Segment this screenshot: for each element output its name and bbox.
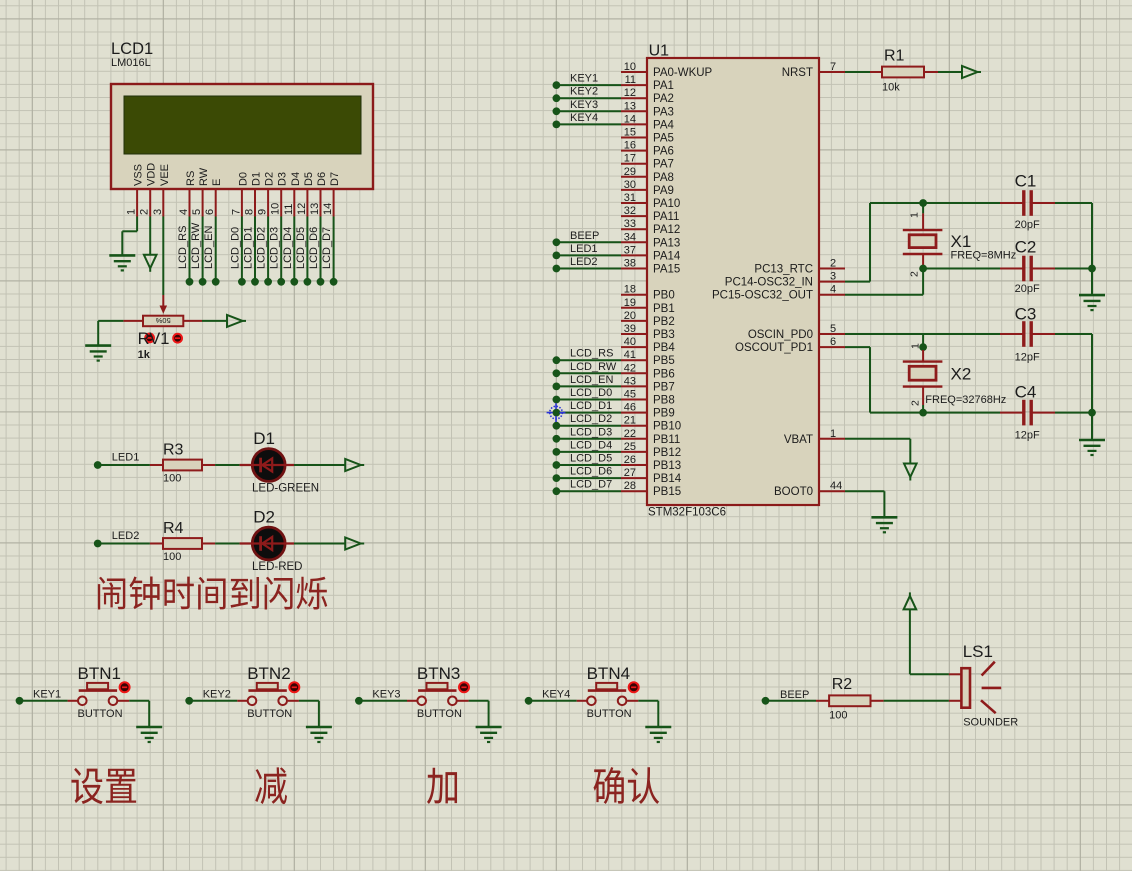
svg-text:1: 1 [126,209,138,215]
wire D1 out [294,464,345,466]
BTN4 marker [629,682,639,692]
svg-text:2: 2 [830,258,836,270]
svg-text:LCD_EN: LCD_EN [570,374,613,386]
svg-text:PA7: PA7 [653,159,674,171]
svg-text:46: 46 [624,402,636,414]
svg-text:PA0-WKUP: PA0-WKUP [653,67,713,79]
wire BTN4 to ground [638,700,658,702]
svg-text:27: 27 [624,467,636,479]
svg-text:KEY1: KEY1 [570,73,598,85]
RV1 right lead [183,320,202,322]
svg-text:28: 28 [624,480,636,492]
svg-text:26: 26 [624,454,636,466]
wire VEE to RV1 [162,217,164,296]
svg-text:KEY3: KEY3 [372,688,400,700]
svg-text:LCD_D2: LCD_D2 [570,413,612,425]
svg-text:LCD_D3: LCD_D3 [269,227,281,269]
svg-text:7: 7 [230,209,242,215]
svg-text:PC15-OSC32_OUT: PC15-OSC32_OUT [712,290,813,302]
svg-text:R3: R3 [163,442,184,459]
svg-text:9: 9 [257,209,269,215]
svg-text:PC13_RTC: PC13_RTC [754,264,813,276]
svg-text:D1: D1 [253,429,275,448]
svg-text:PB2: PB2 [653,316,675,328]
svg-text:STM32F103C6: STM32F103C6 [648,507,726,519]
RV1 marker right [173,334,182,343]
svg-text:2: 2 [139,209,151,215]
U1 left pin stubs [621,71,647,73]
svg-text:PB13: PB13 [653,460,681,472]
svg-text:43: 43 [624,375,636,387]
svg-text:33: 33 [624,218,636,230]
MCU U1 body [647,58,819,505]
svg-text:KEY4: KEY4 [570,112,598,124]
svg-text:LCD_D0: LCD_D0 [229,227,241,269]
capacitor C2 [1000,268,1024,270]
svg-text:VEE: VEE [159,164,171,186]
wire net LCD_D3 [556,438,621,440]
wire OSCIN C3 [845,333,1000,335]
svg-text:4: 4 [830,284,836,296]
wire BTN1 to ground [129,700,149,702]
svg-text:100: 100 [829,710,847,722]
LCD wire terminals [186,278,194,286]
wire net LCD_D7 [556,490,621,492]
svg-text:BEEP: BEEP [570,230,599,242]
ground (C1 C2) [1079,294,1105,297]
svg-text:LED-RED: LED-RED [252,561,302,573]
sounder LS1 body [961,668,970,708]
svg-text:LS1: LS1 [963,642,993,661]
capacitor C4 [1000,412,1024,414]
wire PC15 [845,294,923,296]
svg-text:7: 7 [830,61,836,73]
power arrow (D2) [345,538,361,550]
button BTN4 [587,697,596,706]
svg-text:LCD_D1: LCD_D1 [570,400,612,412]
svg-text:BUTTON: BUTTON [417,708,462,720]
button BTN3 [417,697,426,706]
svg-text:LCD_D6: LCD_D6 [308,227,320,269]
wire net LCD_D2 [556,425,621,427]
svg-text:D2: D2 [253,508,275,527]
wire net LED2 [556,268,621,270]
svg-text:LCD_D1: LCD_D1 [243,227,255,269]
svg-text:14: 14 [322,203,334,215]
svg-text:LCD_D6: LCD_D6 [570,466,612,478]
wire net LCD_RW [556,372,621,374]
svg-text:BUTTON: BUTTON [247,708,292,720]
svg-text:VDD: VDD [146,163,158,186]
svg-text:10: 10 [270,203,282,215]
selection marker (LCD_D1 pin) [550,406,563,419]
svg-text:BTN4: BTN4 [587,664,630,683]
svg-text:39: 39 [624,323,636,335]
potentiometer RV1 body [143,316,183,327]
svg-text:34: 34 [624,231,636,243]
svg-text:PB14: PB14 [653,473,682,485]
svg-text:D1: D1 [251,172,263,186]
RV1 left lead [123,320,143,322]
svg-text:13: 13 [624,100,636,112]
ground (BOOT0) [871,516,897,519]
ground (BTN3) [476,726,502,729]
svg-text:LCD_D7: LCD_D7 [321,227,333,269]
svg-text:BEEP: BEEP [780,689,809,701]
LS1 lead top [949,673,962,675]
X1 pin2 lead [922,254,924,269]
svg-text:LCD_D7: LCD_D7 [570,479,612,491]
svg-text:PA15: PA15 [653,264,680,276]
wire net LCD_D4 [556,451,621,453]
resistor R3 [150,464,163,466]
svg-text:LCD_D3: LCD_D3 [570,426,612,438]
svg-text:6: 6 [204,209,216,215]
svg-text:12: 12 [296,203,308,215]
svg-text:KEY1: KEY1 [33,688,61,700]
svg-text:12: 12 [624,87,636,99]
svg-text:PB1: PB1 [653,303,675,315]
svg-text:RW: RW [198,167,210,186]
svg-text:KEY2: KEY2 [570,86,598,98]
right rail top [1091,203,1093,295]
ground (RV1) [85,344,111,347]
svg-text:LM016L: LM016L [111,57,151,69]
svg-text:12pF: 12pF [1015,352,1040,364]
svg-text:PA11: PA11 [653,211,679,223]
svg-text:PB7: PB7 [653,381,675,393]
svg-text:1: 1 [910,343,922,349]
LCD pin stubs [136,189,138,217]
svg-text:PA6: PA6 [653,146,674,158]
wire PC14 riser [869,203,871,282]
svg-text:4: 4 [178,209,190,215]
power arrow (VDD) [144,255,157,268]
X2 pin2 lead [922,387,924,405]
svg-text:42: 42 [624,362,636,374]
svg-text:100: 100 [163,551,181,563]
svg-text:X2: X2 [951,365,972,384]
svg-text:D5: D5 [303,172,315,186]
svg-text:RS: RS [185,171,197,186]
node X1 pin2 [919,265,927,273]
U1 right pin stubs [819,71,845,73]
svg-text:PB15: PB15 [653,486,681,498]
svg-text:8: 8 [244,209,256,215]
wire R2 to LS1 [884,700,949,702]
svg-text:PA14: PA14 [653,250,681,262]
svg-text:PA3: PA3 [653,106,674,118]
LCD screen [124,96,361,154]
caption plus [427,768,457,804]
svg-text:2: 2 [909,271,921,277]
svg-text:PC14-OSC32_IN: PC14-OSC32_IN [725,277,813,289]
svg-text:FREQ=32768Hz: FREQ=32768Hz [925,394,1006,406]
wire R4 in [98,543,150,545]
svg-text:PB11: PB11 [653,434,680,446]
svg-text:PB6: PB6 [653,368,675,380]
svg-text:LCD_D4: LCD_D4 [570,439,612,451]
svg-text:BTN2: BTN2 [247,664,290,683]
svg-text:19: 19 [624,297,636,309]
svg-text:PA10: PA10 [653,198,680,210]
svg-text:R1: R1 [884,48,905,65]
wire KEY3 [359,700,407,702]
capacitor C3 [1000,333,1024,335]
svg-text:PA13: PA13 [653,237,680,249]
wire KEY1 [20,700,68,702]
svg-text:C3: C3 [1015,305,1037,324]
ground (BTN4) [645,726,671,729]
power arrow (D1) [345,459,361,471]
wire net KEY2 [556,97,621,99]
svg-text:20: 20 [624,310,636,322]
ground (BTN1) [136,726,162,729]
crystal X1 [903,229,943,231]
svg-text:KEY3: KEY3 [570,99,598,111]
svg-text:PA12: PA12 [653,224,680,236]
svg-text:D3: D3 [277,172,289,186]
wire net BEEP [556,241,621,243]
svg-text:17: 17 [624,153,636,165]
wire net LCD_D0 [556,399,621,401]
svg-text:LCD_RS: LCD_RS [177,226,189,269]
button BTN1 [78,697,87,706]
resistor R1 [870,71,882,73]
svg-text:40: 40 [624,336,636,348]
annotation alarm-flash text [98,577,125,610]
wire net LCD_D6 [556,477,621,479]
wire BOOT0 [845,490,884,492]
svg-text:LED1: LED1 [112,452,140,464]
svg-text:LCD1: LCD1 [111,40,153,58]
power arrow (NRST) [962,66,978,78]
svg-text:100: 100 [163,473,181,485]
wire net KEY3 [556,110,621,112]
resistor R2 [816,700,829,702]
svg-text:PA5: PA5 [653,133,674,145]
svg-text:5: 5 [830,323,836,335]
wire R3 in [98,464,150,466]
svg-text:1k: 1k [138,349,151,361]
svg-text:3: 3 [152,209,164,215]
caption minus [255,767,287,804]
BTN1 marker [120,682,130,692]
wire net LCD_D5 [556,464,621,466]
button BTN2 [248,697,257,706]
svg-text:38: 38 [624,258,636,270]
svg-text:PB5: PB5 [653,355,675,367]
svg-text:PB0: PB0 [653,290,675,302]
svg-text:PB4: PB4 [653,342,675,354]
svg-text:11: 11 [283,204,295,215]
svg-text:LCD_D4: LCD_D4 [282,227,294,269]
svg-text:6: 6 [830,336,836,348]
wire D2 out [294,543,345,545]
svg-text:50%: 50% [155,316,170,325]
svg-text:BUTTON: BUTTON [78,708,123,720]
node rail C2 [1088,265,1096,273]
svg-text:LCD_EN: LCD_EN [203,226,215,269]
wire VBAT [845,438,910,440]
wire net KEY1 [556,84,621,86]
svg-text:22: 22 [624,428,636,440]
svg-text:OSCIN_PD0: OSCIN_PD0 [748,329,813,341]
X1 pin1 lead [922,203,924,213]
ground (C3 C4) [1079,439,1105,442]
crystal X2 [903,360,943,362]
power arrow (LS1) [904,596,917,610]
wire R1 to power [938,71,962,73]
LED D2 [252,527,285,560]
svg-text:2: 2 [910,400,922,406]
svg-text:RV1: RV1 [138,330,170,348]
wire RV1 left to ground [98,320,123,322]
svg-text:LED1: LED1 [570,243,598,255]
svg-text:PB3: PB3 [653,329,675,341]
svg-text:PB10: PB10 [653,421,681,433]
svg-text:LED-GREEN: LED-GREEN [252,482,319,494]
right rail bottom [1091,334,1093,440]
wire NRST to R1 [845,71,870,73]
wire C1 top [870,202,1000,204]
LED D1 [252,449,285,482]
svg-text:45: 45 [624,389,636,401]
LCD LM016L body [111,84,373,189]
LCD data wires [189,217,191,282]
svg-text:10: 10 [624,61,636,73]
svg-text:15: 15 [624,127,636,139]
svg-text:SOUNDER: SOUNDER [963,717,1018,729]
RV1 wiper lead [162,295,164,307]
svg-text:VBAT: VBAT [784,434,813,446]
wire RV1 right [202,320,227,322]
svg-text:PB9: PB9 [653,408,675,420]
svg-text:BTN3: BTN3 [417,664,460,683]
wire R3 to D1 [215,464,240,466]
svg-text:C4: C4 [1015,383,1037,402]
svg-text:KEY2: KEY2 [203,688,231,700]
svg-text:D7: D7 [329,172,341,186]
svg-text:30: 30 [624,179,636,191]
wire power to LS1 [909,609,911,674]
svg-text:32: 32 [624,205,636,217]
svg-text:10k: 10k [882,82,900,94]
svg-text:BUTTON: BUTTON [587,708,632,720]
svg-text:E: E [211,179,223,186]
svg-text:BTN1: BTN1 [78,664,121,683]
svg-text:3: 3 [830,271,836,283]
caption set [71,768,102,804]
svg-text:LED2: LED2 [112,530,140,542]
wire VDD [149,217,151,255]
svg-text:FREQ=8MHz: FREQ=8MHz [951,250,1017,262]
svg-text:12pF: 12pF [1015,430,1040,442]
svg-text:18: 18 [624,284,636,296]
caption confirm [593,767,623,804]
svg-text:LCD_D5: LCD_D5 [570,453,612,465]
ground (BTN2) [306,726,332,729]
svg-text:41: 41 [624,349,636,361]
node X2 pin2 [919,409,927,417]
power arrow (RV1 out) [227,315,243,327]
power arrow (VBAT) [904,464,917,478]
wire BTN2 to ground [299,700,319,702]
svg-text:21: 21 [624,415,636,427]
wire R4 to D2 [215,543,240,545]
svg-text:LCD_RW: LCD_RW [570,361,617,373]
svg-text:5: 5 [191,209,203,215]
svg-text:44: 44 [830,480,842,492]
wire OSCOUT [845,346,870,348]
LS1 sound waves [982,662,995,676]
node X1 pin1 [919,199,927,207]
svg-text:LCD_RW: LCD_RW [190,222,202,269]
svg-text:D6: D6 [316,172,328,186]
svg-text:13: 13 [309,203,321,215]
svg-text:PB12: PB12 [653,447,681,459]
svg-text:D0: D0 [237,172,249,186]
svg-text:20pF: 20pF [1015,219,1040,231]
svg-text:31: 31 [624,192,636,204]
svg-text:NRST: NRST [782,67,813,79]
RV1 marker left [145,334,154,343]
wire VSS to ground [136,217,138,232]
svg-text:PA9: PA9 [653,185,674,197]
svg-text:PA1: PA1 [653,80,674,92]
svg-text:PB8: PB8 [653,395,675,407]
BTN2 marker [289,682,299,692]
wire net LCD_EN [556,385,621,387]
svg-text:14: 14 [624,113,636,125]
svg-text:PA4: PA4 [653,119,674,131]
svg-text:VSS: VSS [133,164,145,186]
svg-text:PA2: PA2 [653,93,674,105]
svg-text:1: 1 [830,428,836,440]
svg-text:37: 37 [624,244,636,256]
svg-text:25: 25 [624,441,636,453]
svg-text:1: 1 [909,212,921,218]
svg-text:R4: R4 [163,520,184,537]
svg-text:C2: C2 [1015,238,1037,257]
node rail C4 [1088,409,1096,417]
svg-text:R2: R2 [832,676,853,693]
svg-text:LCD_RS: LCD_RS [570,348,613,360]
ground (LCD VSS) [109,254,135,257]
BTN3 marker [459,682,469,692]
wire net KEY4 [556,123,621,125]
svg-text:OSCOUT_PD1: OSCOUT_PD1 [735,342,813,354]
svg-text:KEY4: KEY4 [542,688,570,700]
wire KEY2 [189,700,237,702]
svg-text:20pF: 20pF [1015,283,1040,295]
svg-text:11: 11 [625,74,636,86]
svg-text:BOOT0: BOOT0 [774,486,813,498]
svg-text:D4: D4 [290,172,302,186]
X2 pin1 lead [922,334,924,350]
svg-text:D2: D2 [264,172,276,186]
wire net LCD_D1 [556,412,621,414]
wire net LCD_RS [556,359,621,361]
resistor R4 [150,543,163,545]
wire BEEP [766,700,817,702]
wire BTN3 to ground [469,700,489,702]
svg-text:C1: C1 [1015,172,1037,191]
wire C2 [923,268,1000,270]
LS1 lead bottom [949,700,962,702]
capacitor C1 [1000,202,1024,204]
svg-text:LCD_D5: LCD_D5 [295,227,307,269]
